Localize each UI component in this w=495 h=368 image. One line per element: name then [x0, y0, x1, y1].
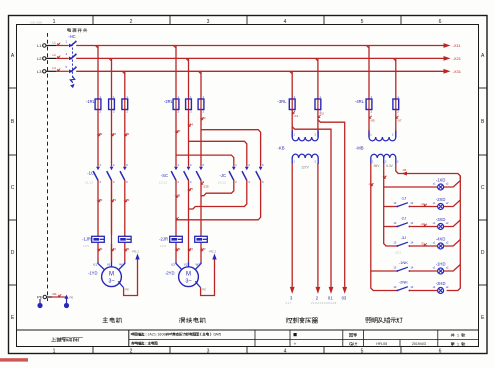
- wire motor -1YD to PE riser: [124, 259, 138, 296]
- earth junction arrow: [65, 295, 69, 299]
- svg-text:-122: -122: [110, 132, 116, 136]
- zone tick top x=401: [400, 16, 402, 25]
- wire tick -21: [424, 243, 427, 246]
- contactor -SC pole 1-2: [171, 163, 179, 184]
- terminal circle L3: [43, 70, 46, 73]
- contactor -SC pole 3-4: [184, 163, 192, 184]
- sheet total 共 1 张: [451, 334, 465, 338]
- wire row3 lamp to rail: [444, 220, 461, 227]
- switch -2J: [393, 215, 413, 227]
- switch -1J: [393, 195, 413, 207]
- fuse -2RL element 1: [173, 95, 180, 113]
- wire fuse -2RL.3 to contactor -SC: [200, 110, 202, 167]
- wire fuse -3RL.1 to -KB primary: [291, 110, 293, 138]
- svg-text:-X21: -X21: [453, 56, 462, 61]
- svg-text:-05: -05: [370, 119, 375, 123]
- wire feed -06 from -MB to right rail: [396, 163, 461, 179]
- title block middle line: [129, 339, 479, 341]
- svg-text:-2HD: -2HD: [436, 281, 446, 286]
- wire row1 -1XD: [384, 186, 438, 188]
- switch -HC operator arrow: [70, 77, 74, 83]
- wire tap to terminal 01: [292, 127, 331, 287]
- transformer -MB secondary windings: [371, 154, 384, 158]
- svg-text:-1YD: -1YD: [88, 271, 98, 276]
- wire row1 lamp to rail: [444, 181, 461, 188]
- wire tick -122: [112, 133, 115, 136]
- svg-text:2: 2: [130, 349, 133, 355]
- wire -SC pole1 to relay -2JR: [175, 180, 177, 235]
- motor -2YD: [179, 267, 199, 287]
- caption 主电机: [103, 317, 122, 322]
- wire row3 right: [409, 226, 437, 228]
- wire tap L1 to -JC pole3: [176, 155, 234, 166]
- terminal arrow 01: [329, 287, 334, 294]
- contactor -JC pole 3-4: [242, 163, 250, 184]
- svg-text:-06: -06: [402, 168, 407, 172]
- wire row2 left: [384, 206, 398, 208]
- svg-text:5: 5: [361, 349, 364, 355]
- fuse -1RL element 2: [109, 95, 116, 113]
- wire fuse -2RL.2 to contactor -SC: [188, 110, 190, 167]
- wire right rail: [447, 176, 461, 291]
- tap chamfer at x=98: [95, 46, 98, 49]
- svg-text:-125: -125: [187, 187, 193, 191]
- wire -JC pole2 output crossover: [189, 180, 247, 209]
- wire tick -112: [98, 133, 101, 136]
- zone tick bottom x=247: [246, 347, 248, 354]
- transformer -KB primary winding: [291, 131, 293, 138]
- zone tick right y=220: [479, 219, 488, 221]
- title block divider x=363.6: [363, 330, 365, 347]
- wire tick -K2: [318, 115, 321, 118]
- svg-text:2.1.7: 2.1.7: [286, 301, 292, 305]
- wire tick -125: [189, 188, 192, 191]
- wire tick -241: [176, 248, 179, 251]
- svg-text:-K1: -K1: [294, 114, 299, 118]
- red printing mark bottom-left: [0, 358, 28, 361]
- zone tick left y=155: [9, 154, 17, 156]
- switch -HC linkage dashed: [72, 44, 74, 79]
- tap chamfer at x=395.8: [393, 58, 396, 61]
- fuse -2RL element 3: [198, 95, 205, 113]
- wire rail -02 from -MB: [371, 163, 398, 291]
- wire L3 to switch: [56, 70, 69, 72]
- svg-text:-4RL: -4RL: [355, 99, 365, 104]
- svg-text:3: 3: [207, 349, 210, 355]
- svg-text:-115: -115: [175, 194, 181, 198]
- wire contactor -1C to relay -1JR x=98: [97, 180, 99, 235]
- wire L2 terminal to boundary: [46, 57, 56, 59]
- wire -KB secondary left to terminal 3: [291, 163, 293, 287]
- svg-text:HFL05: HFL05: [376, 342, 387, 346]
- svg-text:-113: -113: [97, 198, 103, 202]
- PE connector arrow -PE.2: [212, 254, 216, 260]
- zone tick bottom x=401: [400, 347, 402, 354]
- svg-text:5: 5: [361, 19, 364, 25]
- wire relay -2JR to motor -2YD x=201: [200, 244, 202, 262]
- svg-text:D: D: [481, 250, 485, 256]
- wire fuse -2RL.1 to contactor -SC: [175, 110, 177, 167]
- lamp -2HD: [433, 281, 449, 294]
- svg-text:6: 6: [439, 349, 442, 355]
- fuse -4RL element 2: [393, 95, 400, 113]
- company name 上海锻压机床厂: [51, 337, 82, 341]
- bus L1 arrow to X11: [444, 43, 451, 48]
- wire fuse -4RL.2 to -MB primary: [395, 110, 397, 138]
- wire tick -143: [125, 248, 128, 251]
- transformer -MB primary winding: [368, 131, 370, 138]
- wire tick -05: [369, 116, 372, 119]
- wire row4 lamp to rail: [444, 240, 461, 247]
- wire arrow L2: [58, 56, 61, 59]
- wire arrow -06: [402, 172, 408, 176]
- PE terminal circle: [43, 295, 46, 298]
- fuse -3RL element 1: [289, 95, 296, 113]
- zone tick bottom x=170: [169, 347, 171, 354]
- svg-text:PE: PE: [125, 288, 129, 292]
- svg-text:4: 4: [284, 19, 287, 25]
- wire row5 right: [409, 270, 437, 272]
- wire fuse -1RL to contactor -1C x=124.8: [124, 110, 126, 167]
- svg-text:-141: -141: [97, 247, 103, 251]
- svg-text:1.2.5: 1.2.5: [83, 244, 89, 248]
- wire tick -19: [424, 204, 427, 207]
- svg-text:-133: -133: [123, 198, 129, 202]
- motor -1YD entry leads: [98, 262, 125, 270]
- thermal relay -2JR element 2: [195, 235, 208, 244]
- zone tick right y=88: [479, 87, 488, 89]
- wire arrow PE: [59, 294, 62, 297]
- title block divider x=290: [289, 330, 291, 347]
- svg-text:-142: -142: [110, 247, 116, 251]
- svg-text:-2RL: -2RL: [164, 99, 174, 104]
- svg-text:D: D: [11, 250, 15, 256]
- svg-text:-X31: -X31: [453, 69, 462, 74]
- zone tick bottom x=324: [323, 347, 325, 354]
- svg-text:-243: -243: [200, 247, 206, 251]
- title block divider x=437.8: [437, 330, 439, 347]
- svg-text:127V: 127V: [301, 166, 309, 170]
- wire tick -133: [125, 199, 128, 202]
- svg-text:-1HD: -1HD: [436, 262, 446, 267]
- switch caption 电源开关: [68, 28, 87, 32]
- svg-text:JA21-160B: JA21-160B: [148, 333, 167, 337]
- switch -3J: [393, 235, 413, 247]
- earth symbol at junction: [66, 297, 68, 304]
- zone tick bottom x=93: [92, 347, 94, 354]
- svg-text:-4XD: -4XD: [436, 237, 446, 242]
- wire relay -1JR to motor -1YD x=111.5: [111, 244, 113, 262]
- wire fuse -1RL to contactor -1C x=98: [97, 110, 99, 167]
- contactor -1C pole 5-6: [120, 163, 128, 184]
- svg-text:-02: -02: [368, 182, 373, 186]
- wire row4 right: [409, 245, 437, 247]
- svg-text:M: M: [186, 272, 191, 278]
- contactor -JC pole 1-2: [229, 163, 237, 184]
- svg-text:-07: -07: [397, 119, 402, 123]
- wire L1 to switch: [56, 45, 69, 47]
- svg-text:-241: -241: [175, 247, 181, 251]
- wire -KB secondary right to terminal 2: [317, 163, 319, 287]
- wire tick -132: [125, 133, 128, 136]
- wire fuse -1RL to contactor -1C x=111.5: [111, 110, 113, 167]
- svg-text:-2XD: -2XD: [436, 197, 446, 202]
- title block divider x=128.8: [128, 330, 130, 347]
- svg-text:-1J: -1J: [401, 195, 407, 200]
- svg-text:-SC: -SC: [161, 173, 168, 178]
- earth symbol at PE terminal: [39, 299, 41, 304]
- wire branch1 drop x=98: [97, 46, 99, 100]
- svg-text:-1RL: -1RL: [86, 99, 96, 104]
- wire branch4 drop from L1: [368, 46, 370, 100]
- caption 照明及指示灯: [366, 317, 403, 322]
- svg-text:3: 3: [207, 19, 210, 25]
- wire tick -123: [112, 199, 115, 202]
- svg-text:L1: L1: [53, 40, 57, 44]
- tap chamfer at x=111.5: [109, 58, 112, 61]
- tap chamfer at x=124.8: [122, 71, 125, 74]
- svg-text:3~: 3~: [185, 279, 191, 285]
- svg-text:-3J: -3J: [401, 235, 407, 240]
- svg-text:2.1.8 2.4.6 2.6.9 2.6.8: 2.1.8 2.4.6 2.6.9 2.6.8: [311, 301, 337, 305]
- zone tick right y=285: [479, 284, 488, 286]
- wire branch2 drop x=201: [200, 71, 202, 99]
- contactor -JC pole 5-6: [256, 163, 264, 184]
- svg-text:-PE.1: -PE.1: [132, 250, 140, 254]
- svg-text:-112: -112: [97, 132, 103, 136]
- tap chamfer at x=369: [366, 46, 369, 49]
- wire row3 left: [384, 226, 398, 228]
- lamp -1XD: [433, 178, 449, 191]
- svg-text:U2: U2: [171, 262, 175, 266]
- project line 2: [132, 342, 158, 345]
- svg-text:C: C: [481, 185, 485, 191]
- caption 控制变压器: [286, 317, 318, 323]
- svg-text:L2: L2: [53, 53, 57, 57]
- svg-text:2019/4/3: 2019/4/3: [412, 342, 426, 346]
- svg-text:L2: L2: [37, 56, 42, 61]
- wire PE to junction: [52, 296, 67, 298]
- wire fuse -3RL.2 to -KB primary: [317, 110, 319, 138]
- PE connector arrow -PE.1: [135, 254, 139, 260]
- svg-text:-21: -21: [421, 241, 426, 245]
- svg-text:PE: PE: [202, 288, 206, 292]
- wire -JC pole3 output crossover: [176, 180, 261, 220]
- tap chamfer at x=188.5: [186, 58, 189, 61]
- svg-text:-2NK: -2NK: [399, 279, 408, 284]
- wire row6 right: [409, 290, 437, 292]
- wire tick -04: [384, 176, 387, 179]
- bus L1 wire: [76, 45, 443, 47]
- field label 图号: [349, 333, 357, 337]
- wire tap L2 to -JC pole2: [189, 141, 247, 166]
- zone tick left y=220: [9, 219, 17, 221]
- transformer -KB secondary winding: [292, 154, 318, 158]
- svg-text:-134: -134: [200, 116, 206, 120]
- bus L3 wire: [76, 70, 443, 72]
- wire tick -243: [201, 248, 204, 251]
- wire row2 right: [409, 206, 437, 208]
- wire tick -02: [371, 183, 374, 186]
- motor -2YD entry leads: [176, 262, 201, 270]
- panel boundary dashed line: [47, 33, 49, 301]
- wire tick -07: [396, 116, 399, 119]
- zone tick top x=93: [92, 16, 94, 25]
- svg-text:PE: PE: [53, 292, 57, 296]
- bus L2 wire: [76, 57, 443, 59]
- wire row5 left: [371, 270, 398, 272]
- svg-text:1.2.5: 1.2.5: [160, 244, 166, 248]
- title block divider x=255: [254, 330, 256, 347]
- motor -1YD: [102, 267, 122, 287]
- wire branch1 drop x=124.8: [124, 71, 126, 99]
- switch -HC pole 5-6: [69, 67, 76, 73]
- wire L1 terminal to boundary: [46, 45, 56, 47]
- svg-text:-PE.2: -PE.2: [209, 250, 217, 254]
- svg-text:03: 03: [342, 296, 347, 301]
- wire tick -242: [189, 248, 192, 251]
- wire relay -1JR to motor -1YD x=124.8: [124, 244, 126, 262]
- svg-text:1: 1: [457, 342, 459, 346]
- zone tick right y=155: [479, 154, 488, 156]
- wire -JC pole1 output crossover: [201, 180, 234, 196]
- svg-text:3~: 3~: [108, 279, 114, 285]
- svg-text:4: 4: [284, 349, 287, 355]
- thermal relay -1JR element 1: [92, 235, 105, 244]
- terminal circle L1: [43, 44, 46, 47]
- switch -1NK: [393, 260, 413, 272]
- wire tick -114: [176, 130, 179, 133]
- wire tick -141: [98, 248, 101, 251]
- terminal arrow 3: [290, 287, 295, 294]
- zone tick top x=324: [323, 16, 325, 25]
- svg-text:L3: L3: [37, 69, 42, 74]
- wire fuse -4RL.1 to -MB primary: [368, 110, 370, 138]
- zone tick top x=247: [246, 16, 248, 25]
- title block top line: [17, 329, 479, 331]
- svg-text:U1: U1: [93, 262, 97, 266]
- svg-text:-143: -143: [123, 247, 129, 251]
- svg-text:-1NK: -1NK: [399, 260, 408, 265]
- lamp -1HD: [433, 262, 449, 275]
- wire arrow L1: [58, 43, 61, 46]
- svg-text:+: +: [294, 341, 297, 346]
- wire -SC pole2 down: [188, 180, 190, 262]
- zone tick left y=285: [9, 284, 17, 286]
- sheet number 第 1 张: [451, 342, 465, 346]
- svg-text:-2JR: -2JR: [159, 237, 168, 242]
- contactor -SC pole 5-6: [196, 163, 204, 184]
- svg-text:-132: -132: [123, 132, 129, 136]
- caption 滑块电机: [179, 317, 205, 322]
- wire relay -1JR to motor -1YD x=98: [97, 244, 99, 262]
- revision mark square: [294, 333, 297, 336]
- wire branch2 drop x=176: [175, 46, 177, 100]
- wire tap L3 to -JC pole1: [201, 130, 261, 167]
- svg-text:JA21-160B: JA21-160B: [30, 22, 42, 25]
- terminal arrow 03: [342, 287, 347, 294]
- lamp -4XD: [433, 237, 449, 250]
- fuse -3RL element 2: [315, 95, 322, 113]
- wire tick -K1: [292, 111, 295, 114]
- svg-text:2.2.1.2: 2.2.1.2: [159, 181, 167, 185]
- svg-text:2.1.1.2: 2.1.1.2: [85, 181, 93, 185]
- wire PE terminal to boundary: [47, 296, 53, 298]
- wire tick -134: [201, 117, 204, 120]
- tap chamfer at x=176: [173, 46, 176, 49]
- wire -SC pole3 to relay -2JR: [200, 180, 202, 235]
- contactor -1C pole 3-4: [107, 163, 115, 184]
- bus L2 arrow to X21: [444, 56, 451, 61]
- svg-text:2: 2: [130, 19, 133, 25]
- wire tick -115: [176, 195, 179, 198]
- svg-text:-2YD: -2YD: [165, 271, 175, 276]
- svg-text:6.3V: 6.3V: [386, 164, 393, 168]
- wire contactor -1C to relay -1JR x=124.8: [124, 180, 126, 235]
- svg-text:-3XD: -3XD: [436, 217, 446, 222]
- svg-text:PE: PE: [37, 295, 43, 300]
- switch -2NK: [393, 279, 413, 291]
- fuse -4RL element 1: [366, 95, 373, 113]
- wire -1JR middle pass-through: [111, 180, 113, 262]
- wire rail -04 from -MB center tap: [384, 163, 398, 246]
- project line 1: [131, 333, 221, 337]
- svg-text:-JC: -JC: [219, 173, 226, 178]
- title block divider x=342.8: [342, 330, 344, 347]
- motor -2YD PE lead: [196, 282, 201, 287]
- svg-text:V1: V1: [107, 262, 111, 266]
- junction tick at -SC pole1/-JC pole3: [176, 217, 179, 220]
- tap chamfer at x=201: [198, 71, 201, 74]
- wire row5 lamp to rail: [444, 265, 461, 272]
- wire branch3 drop from L2: [317, 58, 319, 99]
- wire tap to terminal 03: [318, 120, 345, 287]
- svg-text:6: 6: [439, 19, 442, 25]
- svg-text:-242: -242: [187, 247, 193, 251]
- wire tick -142: [112, 248, 115, 251]
- wire tick -20: [424, 224, 427, 227]
- svg-text:36V: 36V: [374, 164, 381, 168]
- svg-text:PE: PE: [70, 296, 74, 300]
- field label 设计: [349, 342, 357, 345]
- svg-text:-MB: -MB: [356, 146, 364, 151]
- wire contactor -1C to relay -1JR x=111.5: [111, 180, 113, 235]
- svg-text:-2J: -2J: [401, 215, 407, 220]
- svg-text:-114: -114: [175, 129, 181, 133]
- wire arrow L3: [58, 69, 61, 72]
- lamp -3XD: [433, 217, 449, 230]
- svg-text:DA75: DA75: [214, 333, 222, 337]
- tap chamfer at x=292.2: [290, 71, 293, 74]
- lamp -2XD: [433, 197, 449, 210]
- switch -HC pole 3-4: [69, 54, 76, 60]
- svg-text:V2: V2: [184, 262, 188, 266]
- title block divider row2 x=400: [399, 340, 401, 347]
- fuse -1RL element 1: [95, 95, 102, 113]
- wire tick -135: [201, 182, 204, 185]
- svg-text:L3: L3: [53, 66, 57, 70]
- wire relay -2JR to motor -2YD x=176: [175, 244, 177, 262]
- svg-text:-X11: -X11: [453, 43, 462, 48]
- svg-text:1: 1: [457, 334, 459, 338]
- svg-text:2.5.3: 2.5.3: [395, 251, 401, 255]
- wire L2 to switch: [56, 57, 69, 59]
- zone tick left y=88: [9, 87, 17, 89]
- wire L3 terminal to boundary: [46, 70, 56, 72]
- svg-text:-19: -19: [421, 202, 426, 206]
- svg-text:C: C: [11, 185, 15, 191]
- tap chamfer at x=317.9: [315, 58, 318, 61]
